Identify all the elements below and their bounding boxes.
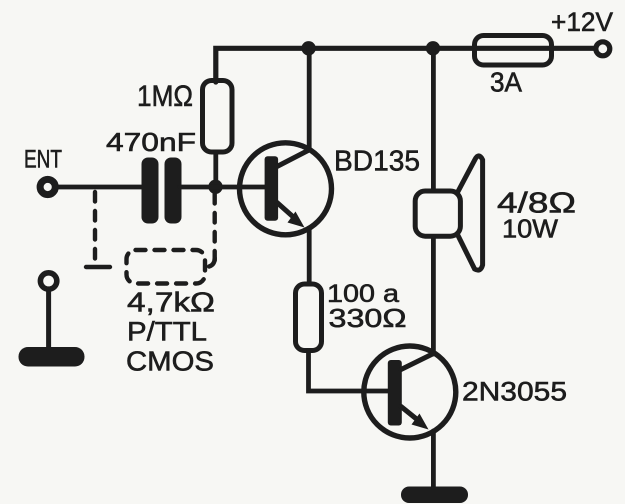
dashed wire corner to R option — [86, 265, 110, 269]
svg-text:470nF: 470nF — [106, 127, 196, 157]
capacitor C1 470nF plate left — [142, 158, 159, 224]
wire Q1 emitter down to R2 — [307, 228, 312, 284]
dashed wire left of C1 — [93, 192, 97, 262]
junction node at collector riser — [301, 41, 315, 55]
svg-text:10W: 10W — [502, 214, 558, 244]
ground bar under Q2 — [401, 487, 468, 504]
svg-text:P/TTL: P/TTL — [127, 317, 207, 347]
svg-text:ENT: ENT — [24, 146, 62, 174]
capacitor C1 470nF plate right — [165, 158, 182, 224]
terminal ENT — [40, 179, 55, 194]
ground terminal left — [40, 273, 56, 289]
terminal +12V — [596, 42, 610, 56]
wire ground terminal stem — [46, 290, 51, 350]
dashed wire right of C1 — [212, 194, 216, 264]
wire speaker riser / Q2 collector — [431, 48, 436, 354]
speaker body — [415, 191, 460, 236]
svg-text:BD135: BD135 — [334, 146, 420, 178]
svg-text:+12V: +12V — [551, 7, 613, 37]
fuse F1 — [475, 36, 552, 66]
ground bar left — [19, 347, 85, 367]
wire top supply rail — [216, 48, 594, 82]
transistor Q2 2N3055 — [364, 346, 456, 438]
speaker cone — [458, 156, 483, 270]
junction node base — [208, 180, 222, 194]
svg-text:3A: 3A — [490, 67, 522, 98]
resistor R2 100-330 — [296, 284, 322, 351]
svg-text:1MΩ: 1MΩ — [137, 80, 193, 113]
wire ENT to C1 — [56, 185, 143, 190]
svg-text:CMOS: CMOS — [126, 346, 214, 377]
transistor Q1 BD135 — [240, 143, 332, 235]
svg-text:4,7kΩ: 4,7kΩ — [127, 287, 215, 318]
svg-text:330Ω: 330Ω — [329, 303, 407, 333]
dashed corner hook — [205, 258, 215, 267]
junction node at speaker riser — [426, 41, 440, 55]
wire Q1 collector riser — [307, 48, 312, 150]
svg-text:2N3055: 2N3055 — [462, 377, 567, 407]
wire Q2 emitter to ground — [431, 431, 436, 488]
resistor R1 1M — [203, 81, 233, 153]
wire R1 bottom to input node — [213, 152, 218, 187]
dashed resistor option 4,7k — [127, 250, 206, 284]
wire R2 to Q2 base — [309, 351, 389, 392]
wire C1 to base node and Q1 base — [180, 185, 265, 190]
